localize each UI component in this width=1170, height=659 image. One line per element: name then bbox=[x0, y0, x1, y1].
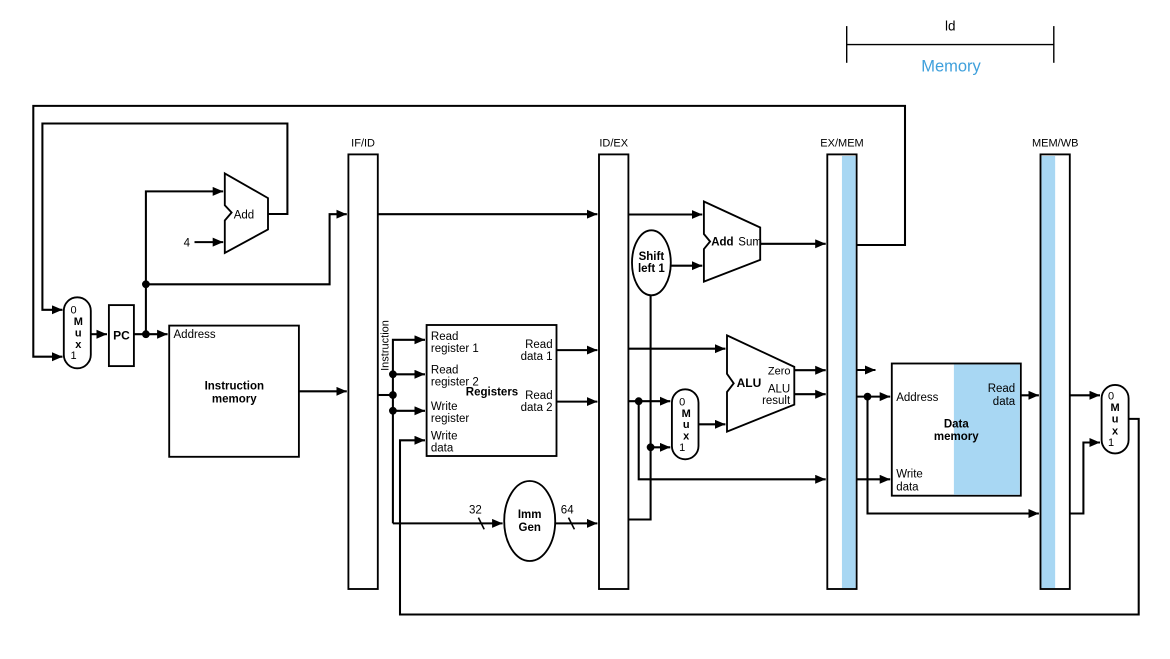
slash 32 bbox=[478, 518, 484, 530]
wire zero stub bbox=[857, 369, 876, 371]
wire writeback to registers write data bbox=[400, 419, 1139, 615]
wire instruction memory to IF/ID bbox=[299, 390, 347, 392]
svg-text:PC: PC bbox=[113, 329, 130, 343]
svg-text:M: M bbox=[74, 316, 83, 328]
junction instruction tee bbox=[389, 391, 397, 399]
junction immediate bbox=[647, 443, 655, 451]
pipeline register EX/MEM bbox=[827, 154, 856, 589]
wire PC up to Add top input bbox=[146, 191, 223, 334]
shift left 1 bbox=[632, 230, 671, 295]
pipeline register ID/EX bbox=[599, 154, 628, 589]
svg-text:0: 0 bbox=[679, 396, 685, 408]
junction address bbox=[864, 393, 872, 401]
wire imm gen to ID/EX bbox=[555, 522, 597, 524]
wire instruction out of IF/ID bbox=[378, 394, 393, 396]
svg-text:Add: Add bbox=[234, 209, 254, 221]
adder Add (PC+4) bbox=[225, 173, 268, 253]
svg-text:data 2: data 2 bbox=[521, 402, 553, 414]
svg-text:ld: ld bbox=[945, 19, 956, 34]
svg-text:Write: Write bbox=[896, 469, 923, 481]
svg-text:memory: memory bbox=[934, 431, 979, 443]
pipeline register IF/ID bbox=[348, 154, 377, 589]
svg-text:ALU: ALU bbox=[737, 376, 762, 390]
svg-text:left 1: left 1 bbox=[638, 263, 665, 275]
svg-text:x: x bbox=[75, 339, 82, 351]
wire MEM/WB to writeback mux input 0 bbox=[1070, 394, 1100, 396]
junction read register 2 bbox=[389, 370, 397, 378]
junction PC out bbox=[142, 330, 150, 338]
wire mux to ALU bottom input bbox=[699, 423, 726, 425]
svg-text:x: x bbox=[1112, 425, 1119, 437]
svg-text:x: x bbox=[683, 431, 690, 443]
svg-text:EX/MEM: EX/MEM bbox=[820, 138, 863, 150]
svg-text:Memory: Memory bbox=[921, 57, 981, 75]
svg-text:memory: memory bbox=[212, 393, 257, 405]
ALU bbox=[727, 335, 794, 431]
svg-text:Address: Address bbox=[174, 329, 216, 341]
svg-text:result: result bbox=[762, 395, 791, 407]
svg-text:register 1: register 1 bbox=[431, 343, 479, 355]
wire instruction vertical to read register 1 bbox=[393, 340, 425, 524]
svg-text:M: M bbox=[1111, 402, 1120, 414]
wire mux to PC bbox=[91, 333, 107, 335]
wire to write register bbox=[393, 410, 425, 412]
imm gen bbox=[504, 481, 555, 561]
wire ID/EX to Add Sum top input bbox=[628, 213, 702, 215]
wire PC to IF/ID bbox=[146, 214, 347, 284]
svg-text:data: data bbox=[431, 442, 454, 454]
adder Add Sum (branch target) bbox=[704, 202, 760, 282]
svg-text:MEM/WB: MEM/WB bbox=[1032, 138, 1078, 150]
svg-text:u: u bbox=[683, 419, 690, 431]
svg-text:Address: Address bbox=[896, 392, 938, 404]
svg-text:Imm: Imm bbox=[518, 509, 542, 521]
junction PC branch bbox=[142, 280, 150, 288]
svg-text:64: 64 bbox=[561, 505, 574, 517]
wire ALU result bypass to writeback mux input 1 bbox=[1070, 443, 1100, 514]
wire shift left 1 to Add Sum bottom input bbox=[671, 265, 703, 267]
stage bracket bbox=[847, 26, 1054, 63]
svg-text:data 1: data 1 bbox=[521, 351, 553, 363]
svg-text:M: M bbox=[682, 408, 691, 420]
wire read data 2 down to EX/MEM write data bbox=[639, 401, 826, 479]
instruction memory bbox=[169, 326, 299, 457]
svg-text:Sum: Sum bbox=[738, 237, 762, 249]
data memory bbox=[892, 364, 1021, 496]
svg-text:ALU: ALU bbox=[768, 383, 790, 395]
wire ALU zero to EX/MEM bbox=[794, 369, 825, 371]
junction write register bbox=[389, 407, 397, 415]
svg-text:data: data bbox=[993, 396, 1016, 408]
svg-text:1: 1 bbox=[70, 350, 76, 362]
svg-text:Read: Read bbox=[431, 331, 459, 343]
mux PC source bbox=[64, 297, 91, 368]
svg-text:Shift: Shift bbox=[639, 251, 665, 263]
svg-text:Registers: Registers bbox=[466, 387, 518, 399]
svg-text:Write: Write bbox=[431, 431, 458, 443]
wire Sum to EX/MEM bbox=[760, 243, 826, 245]
svg-text:Read: Read bbox=[525, 390, 553, 402]
wire to read register 2 bbox=[393, 373, 425, 375]
svg-text:Add: Add bbox=[711, 237, 733, 249]
svg-text:ID/EX: ID/EX bbox=[599, 138, 628, 150]
svg-text:Write: Write bbox=[431, 401, 458, 413]
wire IF/ID to ID/EX (PC pass) bbox=[378, 213, 598, 215]
svg-text:u: u bbox=[75, 327, 82, 339]
svg-text:0: 0 bbox=[1108, 390, 1114, 402]
svg-text:Read: Read bbox=[431, 365, 459, 377]
svg-text:0: 0 bbox=[70, 305, 76, 317]
svg-text:Data: Data bbox=[944, 418, 970, 430]
mux writeback bbox=[1102, 385, 1129, 454]
slash 64 bbox=[569, 518, 575, 530]
svg-text:Gen: Gen bbox=[519, 522, 541, 534]
register PC bbox=[109, 305, 134, 366]
wire ALU result to EX/MEM bbox=[794, 393, 825, 395]
svg-text:1: 1 bbox=[679, 442, 685, 454]
svg-text:u: u bbox=[1112, 414, 1119, 426]
wire immediate branch to ALU mux input 1 bbox=[651, 446, 671, 448]
wire data memory read data to MEM/WB bbox=[1021, 394, 1039, 396]
register file Registers bbox=[427, 325, 557, 456]
wire to imm gen bbox=[393, 522, 503, 524]
wire ID/EX to ALU top input bbox=[628, 348, 725, 350]
wire constant 4 to Add bbox=[195, 241, 224, 243]
wire ALU result bypass down to MEM/WB bbox=[868, 397, 1039, 514]
svg-text:32: 32 bbox=[469, 505, 482, 517]
wire read data 1 to ID/EX bbox=[557, 349, 598, 351]
wire EX/MEM to data memory write data bbox=[857, 478, 891, 480]
wire ID/EX to ALU mux input 0 bbox=[628, 400, 670, 402]
wire immediate up to shift left 1 bbox=[628, 295, 650, 519]
pipeline register MEM/WB bbox=[1041, 154, 1070, 589]
wire PC+4 loop (Add output to PC mux input 0) bbox=[42, 124, 287, 310]
svg-text:register: register bbox=[431, 413, 470, 425]
svg-text:IF/ID: IF/ID bbox=[351, 138, 375, 150]
svg-text:data: data bbox=[896, 481, 919, 493]
wire read data 2 to ID/EX bbox=[557, 401, 598, 403]
svg-text:Zero: Zero bbox=[768, 365, 791, 377]
svg-text:Instruction: Instruction bbox=[379, 320, 391, 371]
mux ALU operand bbox=[672, 389, 699, 459]
wire PC to instruction memory address bbox=[134, 333, 168, 335]
svg-text:1: 1 bbox=[1108, 437, 1114, 449]
svg-text:Read: Read bbox=[525, 339, 553, 351]
wire branch-target loop (EX/MEM right to PC mux input 1) bbox=[33, 106, 905, 357]
svg-text:4: 4 bbox=[184, 237, 191, 249]
wire EX/MEM to data memory address bbox=[857, 396, 891, 398]
svg-text:Instruction: Instruction bbox=[205, 380, 264, 392]
junction read data 2 bbox=[635, 397, 643, 405]
svg-text:Read: Read bbox=[988, 383, 1016, 395]
